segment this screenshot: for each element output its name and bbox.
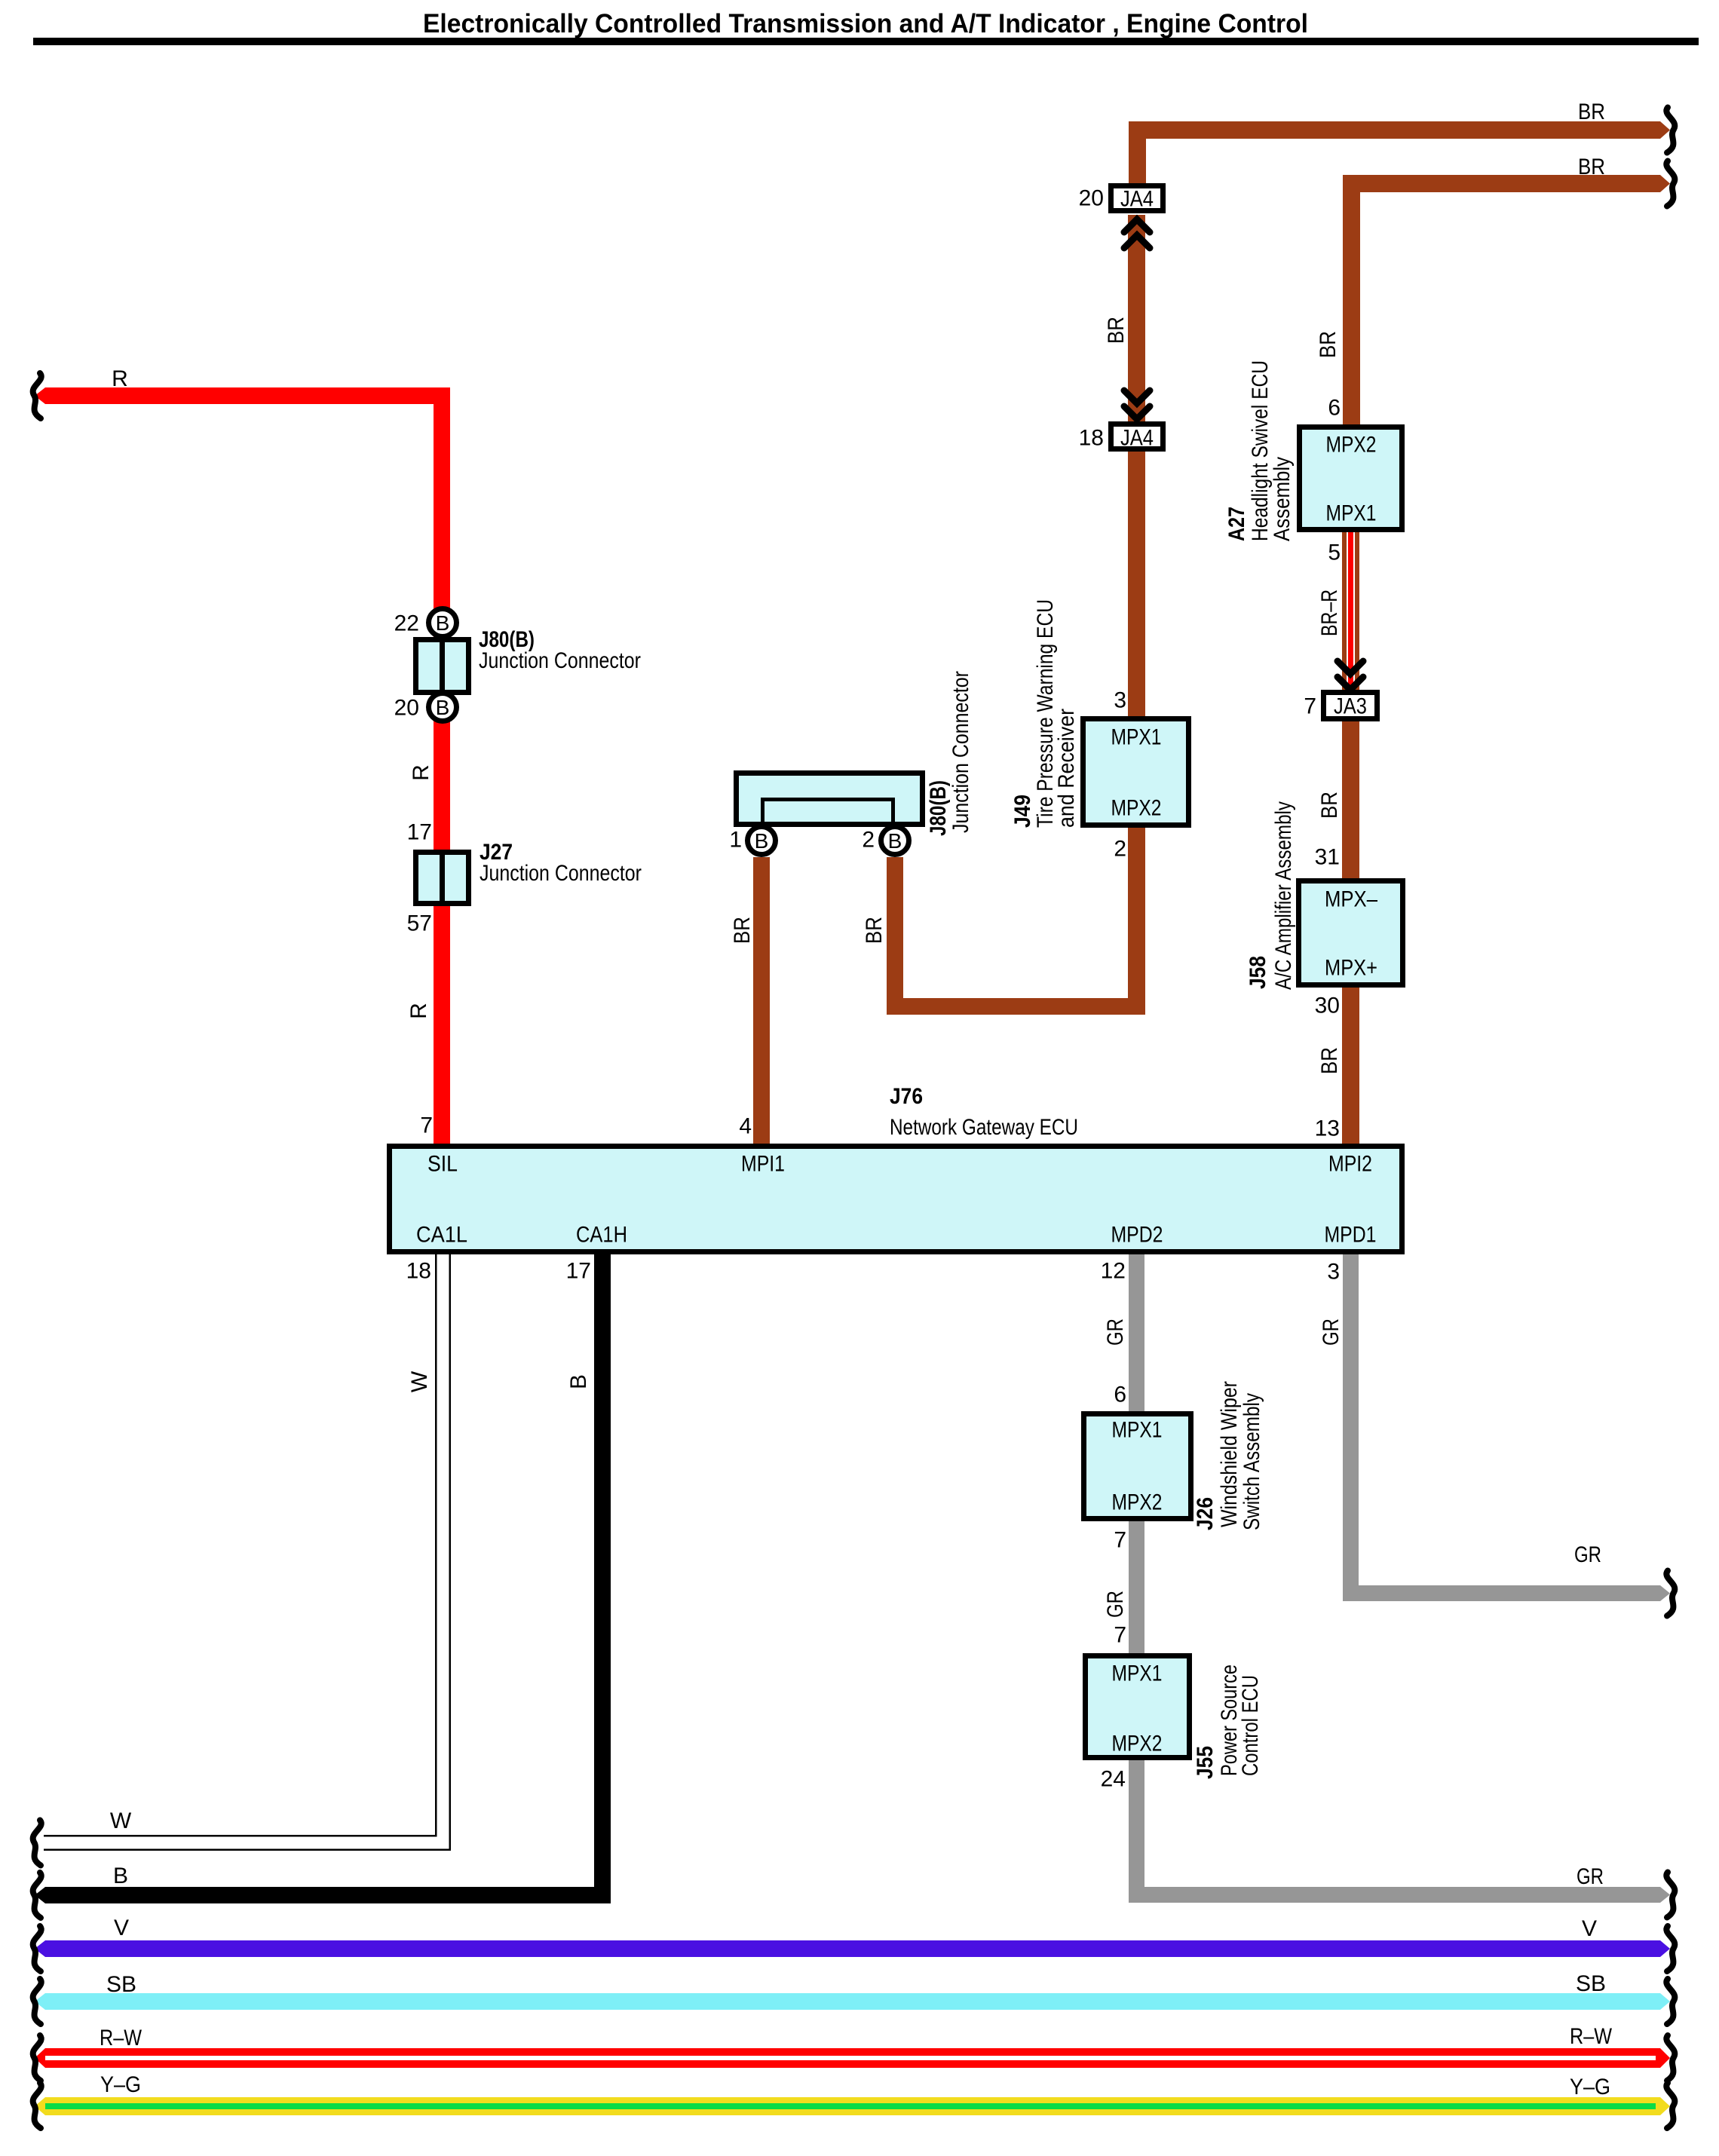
svg-text:R: R	[112, 366, 128, 391]
svg-text:BR: BR	[862, 917, 887, 944]
squiggle R wire left end	[33, 373, 41, 418]
svg-text:17: 17	[407, 820, 432, 845]
label J55 rotated	[1193, 1664, 1263, 1779]
svg-text:7: 7	[1114, 1623, 1126, 1648]
connector JA4 pin 18	[1111, 424, 1163, 451]
squiggle GR bottom right end	[1666, 1873, 1675, 1918]
svg-text:31: 31	[1315, 845, 1340, 870]
svg-text:BR: BR	[1578, 155, 1605, 179]
svg-text:B: B	[436, 696, 450, 719]
svg-text:R: R	[406, 1003, 431, 1019]
label A27 rotated	[1224, 360, 1295, 541]
wire R from left edge to J76 SIL pin 7	[35, 387, 450, 1144]
svg-text:W: W	[407, 1370, 432, 1392]
label J80(B) left	[479, 627, 641, 673]
svg-text:BR: BR	[1316, 331, 1341, 358]
svg-text:6: 6	[1328, 396, 1341, 421]
squiggle R-W right end	[1666, 2035, 1675, 2081]
svg-text:Y–G: Y–G	[100, 2072, 141, 2097]
ECU J58 A/C Amplifier	[1299, 881, 1403, 985]
svg-text:CA1H: CA1H	[576, 1223, 627, 1248]
wire SB	[35, 1993, 1670, 2010]
connector JA4 pin 20	[1111, 186, 1163, 212]
label J58 rotated	[1246, 801, 1296, 990]
svg-text:7: 7	[420, 1113, 433, 1138]
wire W CA1L to left edge (hollow)	[44, 1254, 443, 1843]
svg-text:J49: J49	[1010, 795, 1035, 828]
svg-text:1: 1	[729, 828, 742, 853]
wire GR MPD1 to right edge	[1343, 1254, 1670, 1601]
svg-text:18: 18	[1079, 426, 1104, 451]
svg-text:57: 57	[407, 911, 432, 936]
wire Y-G	[35, 2097, 1670, 2115]
wire BR JA3 to J58 MPX- pin 31	[1342, 721, 1359, 878]
svg-text:17: 17	[566, 1259, 591, 1284]
junction connector J27	[416, 850, 469, 906]
squiggle BR top wire right end	[1666, 108, 1675, 153]
svg-text:30: 30	[1315, 994, 1340, 1018]
ECU J76 Network Gateway	[390, 1147, 1402, 1252]
svg-text:3: 3	[1114, 688, 1126, 713]
squiggle GR mid right end	[1666, 1571, 1675, 1616]
svg-text:and Receiver: and Receiver	[1054, 709, 1079, 828]
svg-text:J80(B): J80(B)	[926, 780, 951, 836]
svg-text:CA1L: CA1L	[416, 1223, 467, 1248]
svg-text:2: 2	[1114, 837, 1126, 862]
connector JA3 pin 7	[1324, 693, 1377, 719]
wire BR JA4 18 to J49 MPX1 pin 3	[1128, 452, 1145, 716]
svg-text:Assembly: Assembly	[1270, 457, 1295, 541]
svg-text:B: B	[436, 611, 450, 635]
svg-text:MPX2: MPX2	[1326, 433, 1377, 458]
svg-text:SB: SB	[106, 1972, 136, 1997]
svg-text:B: B	[755, 829, 769, 853]
svg-text:BR–R: BR–R	[1317, 590, 1342, 636]
wire GR MPD2 to J26	[1129, 1254, 1144, 1411]
svg-text:SB: SB	[1576, 1971, 1606, 1996]
svg-text:18: 18	[406, 1259, 431, 1284]
svg-text:MPX2: MPX2	[1112, 1732, 1163, 1756]
svg-text:Switch Assembly: Switch Assembly	[1239, 1393, 1264, 1530]
squiggle V right end	[1666, 1926, 1675, 1971]
svg-text:13: 13	[1315, 1116, 1340, 1141]
svg-text:MPD1: MPD1	[1325, 1223, 1377, 1248]
svg-text:22: 22	[394, 611, 419, 636]
svg-text:GR: GR	[1574, 1542, 1601, 1567]
svg-text:J55: J55	[1193, 1746, 1218, 1779]
squiggle W left end	[33, 1821, 41, 1866]
svg-text:7: 7	[1304, 694, 1316, 719]
squiggle B left end	[33, 1873, 41, 1918]
label J76 designation	[890, 1084, 1078, 1140]
svg-text:SIL: SIL	[427, 1152, 458, 1177]
svg-text:J26: J26	[1193, 1497, 1218, 1530]
wire R-W	[35, 2048, 1670, 2068]
svg-text:JA4: JA4	[1120, 426, 1154, 451]
svg-text:V: V	[1582, 1916, 1597, 1941]
svg-text:GR: GR	[1319, 1318, 1344, 1346]
svg-text:J76: J76	[890, 1084, 923, 1109]
svg-text:R: R	[409, 764, 434, 781]
circle B pin 2	[881, 827, 909, 855]
svg-text:MPI1: MPI1	[741, 1152, 785, 1177]
chevron arrows down above JA4 18	[1124, 390, 1150, 419]
squiggle Y-G right end	[1666, 2083, 1675, 2128]
ECU J49 Tire Pressure Warning	[1083, 719, 1189, 825]
circle B pin 22	[429, 609, 457, 637]
svg-text:3: 3	[1327, 1260, 1340, 1285]
svg-text:MPX1: MPX1	[1111, 725, 1162, 750]
svg-text:R–W: R–W	[1570, 2024, 1613, 2049]
chevron arrows up below JA4 20	[1124, 219, 1150, 248]
svg-text:BR: BR	[1104, 317, 1129, 344]
svg-text:12: 12	[1101, 1259, 1126, 1284]
ECU A27 Headlight Swivel	[1300, 427, 1402, 530]
label J27	[480, 840, 642, 886]
svg-text:MPX–: MPX–	[1325, 887, 1377, 912]
label J80(B) center rotated	[926, 671, 973, 836]
svg-text:5: 5	[1328, 541, 1341, 565]
wire BR top right to JA4 pin 20	[1129, 121, 1670, 183]
svg-text:R–W: R–W	[100, 2026, 142, 2050]
svg-text:B: B	[888, 829, 902, 853]
label J49 rotated	[1010, 599, 1079, 828]
wire BR J58 MPX+ to J76 MPI2 pin 13	[1342, 988, 1359, 1144]
junction connector J80(B) left	[416, 637, 469, 695]
svg-text:MPX2: MPX2	[1111, 796, 1162, 821]
svg-text:BR: BR	[1317, 1047, 1342, 1074]
svg-text:A27: A27	[1224, 507, 1249, 541]
wire V	[35, 1940, 1670, 1957]
svg-text:MPX+: MPX+	[1325, 956, 1377, 981]
svg-text:W: W	[110, 1808, 132, 1833]
svg-text:Junction Connector: Junction Connector	[479, 648, 641, 673]
svg-text:MPX2: MPX2	[1112, 1490, 1163, 1515]
svg-text:A/C Amplifier Assembly: A/C Amplifier Assembly	[1271, 801, 1296, 990]
chevron arrows down above JA3	[1338, 661, 1363, 690]
svg-text:MPX1: MPX1	[1326, 501, 1377, 526]
svg-text:4: 4	[739, 1114, 752, 1139]
svg-text:Control ECU: Control ECU	[1238, 1675, 1263, 1776]
svg-text:Junction Connector: Junction Connector	[948, 671, 973, 833]
svg-text:7: 7	[1114, 1528, 1126, 1553]
svg-text:JA4: JA4	[1120, 187, 1154, 212]
svg-text:BR: BR	[1578, 100, 1605, 124]
svg-text:J58: J58	[1246, 956, 1270, 989]
svg-text:B: B	[566, 1374, 591, 1389]
label J26 rotated	[1193, 1381, 1264, 1530]
svg-text:JA3: JA3	[1334, 694, 1367, 719]
title underline	[33, 38, 1699, 45]
svg-text:MPX1: MPX1	[1112, 1661, 1163, 1686]
svg-text:Electronically Controlled Tran: Electronically Controlled Transmission a…	[423, 9, 1308, 38]
squiggle R-W left end	[33, 2035, 41, 2081]
svg-text:Y–G: Y–G	[1570, 2075, 1610, 2099]
wire BR between JA4 connectors	[1128, 215, 1145, 421]
ECU J55 Power Source Control	[1086, 1656, 1190, 1758]
svg-text:V: V	[114, 1916, 129, 1940]
svg-text:2: 2	[862, 828, 875, 853]
circle B pin 20	[429, 694, 457, 721]
wire GR J26 to J55	[1129, 1521, 1144, 1653]
svg-text:MPX1: MPX1	[1112, 1418, 1163, 1443]
junction connector J80(B) center	[737, 773, 923, 826]
wire BR second to A27 MPX2 pin 6	[1343, 175, 1670, 424]
squiggle Y-G left end	[33, 2083, 41, 2128]
squiggle SB left end	[33, 1979, 41, 2024]
svg-text:GR: GR	[1103, 1591, 1128, 1618]
circle B pin 1	[748, 827, 776, 855]
svg-text:MPI2: MPI2	[1328, 1152, 1372, 1177]
squiggle BR second wire right end	[1666, 161, 1675, 207]
svg-text:GR: GR	[1103, 1318, 1128, 1346]
svg-text:20: 20	[1079, 186, 1104, 211]
svg-text:Junction Connector: Junction Connector	[480, 861, 642, 886]
svg-text:20: 20	[394, 696, 419, 721]
wire BR-R A27 pin 5 to JA3	[1342, 532, 1359, 690]
squiggle SB right end	[1666, 1979, 1675, 2024]
svg-text:BR: BR	[730, 917, 755, 944]
ECU J26 Windshield Wiper Switch	[1084, 1414, 1191, 1519]
svg-text:24: 24	[1101, 1767, 1126, 1792]
svg-text:BR: BR	[1317, 792, 1342, 819]
wire BR J49 MPX2 pin 2 down and left to J80(B) pin 2	[887, 828, 1145, 1015]
svg-text:B: B	[113, 1864, 128, 1888]
wire BR J80(B) pin 1 to J76 MPI1 pin 4	[753, 857, 770, 1144]
svg-text:Windshield Wiper: Windshield Wiper	[1217, 1381, 1242, 1527]
svg-text:MPD2: MPD2	[1111, 1223, 1163, 1248]
svg-text:GR: GR	[1577, 1864, 1604, 1889]
wire GR J55 pin 24 to right edge	[1129, 1760, 1670, 1903]
squiggle V left end	[33, 1926, 41, 1971]
svg-text:6: 6	[1114, 1383, 1126, 1407]
svg-text:Network Gateway ECU: Network Gateway ECU	[890, 1115, 1078, 1140]
wire B CA1H to left edge	[35, 1254, 611, 1903]
